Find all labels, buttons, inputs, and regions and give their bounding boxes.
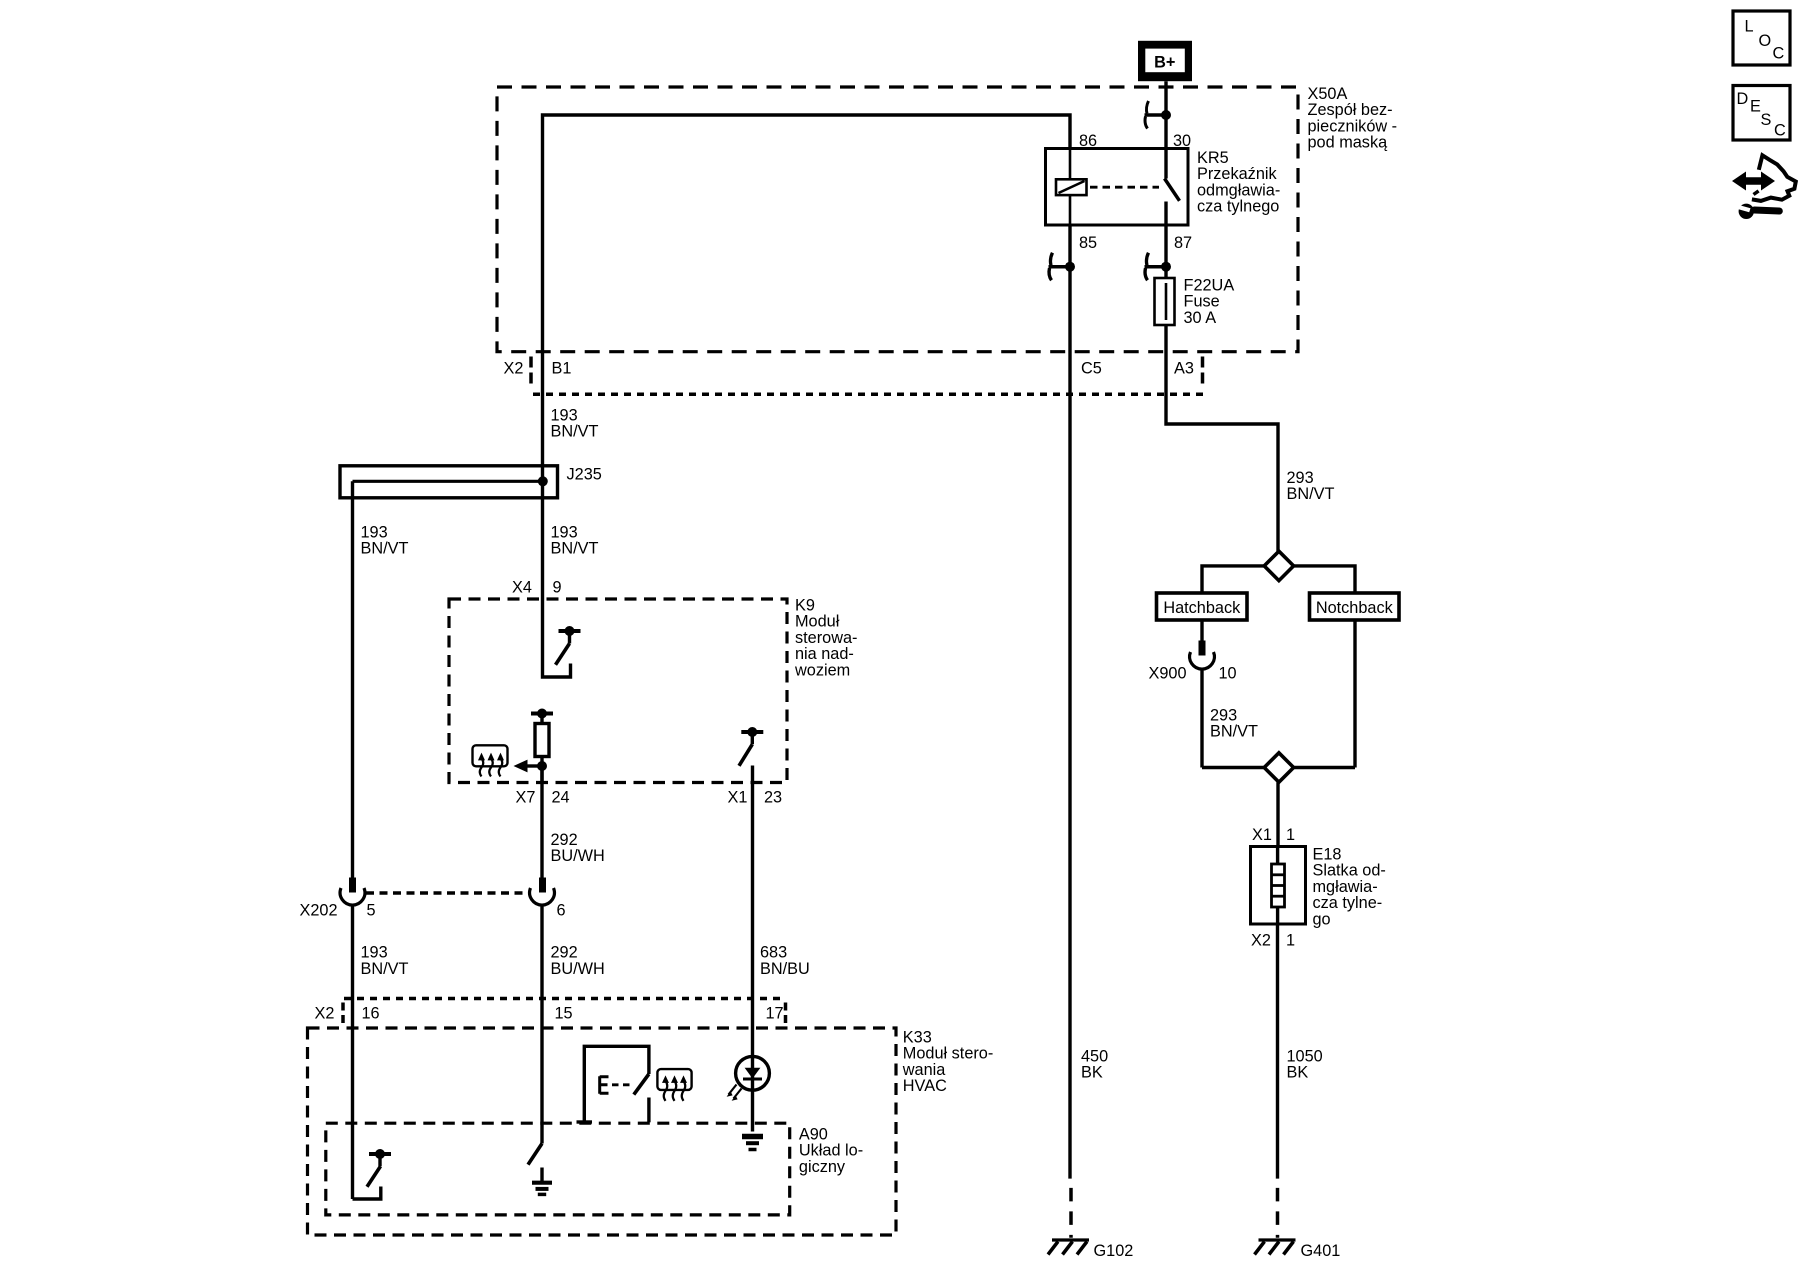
svg-text:wania: wania	[902, 1061, 946, 1079]
pin labels X1 23	[728, 788, 783, 806]
X202 terminal pin 6	[530, 878, 555, 906]
svg-text:mgławia-: mgławia-	[1313, 878, 1378, 896]
label A90 Uklad logiczny	[799, 1125, 863, 1176]
svg-text:B1: B1	[552, 359, 572, 377]
K9 driver switch (pin 9)	[556, 626, 581, 665]
label 292 BU/WH	[551, 944, 605, 978]
DESC reference box	[1733, 86, 1790, 141]
svg-text:pod maską: pod maską	[1308, 134, 1389, 152]
svg-text:23: 23	[764, 788, 782, 806]
svg-text:30: 30	[1173, 132, 1191, 150]
pin labels X7 24	[516, 788, 570, 806]
svg-text:1: 1	[1286, 932, 1295, 950]
label 683 BN/BU	[760, 944, 810, 978]
svg-text:X1: X1	[728, 788, 748, 806]
label 292 BU/WH	[551, 831, 605, 865]
K33 E switch assembly	[577, 1046, 649, 1122]
svg-text:X1: X1	[1252, 826, 1272, 844]
K9 defogger indicator arrow	[514, 760, 543, 773]
connector row X2/B1 C5 A3 dotted line	[533, 392, 1203, 396]
svg-text:450: 450	[1081, 1047, 1108, 1065]
labels X202 5 6	[300, 902, 566, 920]
splice pack J235	[340, 466, 558, 498]
svg-text:giczny: giczny	[799, 1158, 846, 1176]
K9 resistor with control tap	[531, 709, 553, 783]
fuse block X50A dashed box	[497, 87, 1298, 352]
relay dashed link coil to switch	[1090, 186, 1159, 189]
fuse F22UA 30A	[1155, 278, 1175, 325]
wire B1 horizontal to relay pin 86 then hook inside K9	[543, 115, 1071, 677]
splice diamond upper	[1264, 551, 1293, 580]
wire below Hatchback to X900	[1200, 620, 1203, 641]
A90 switch to ground (pin 15)	[528, 1144, 542, 1165]
svg-text:nia nad-: nia nad-	[795, 645, 854, 663]
svg-text:cza tylne-: cza tylne-	[1313, 894, 1383, 912]
connector clip on B+ feed	[1145, 101, 1172, 129]
svg-text:F22UA: F22UA	[1184, 276, 1235, 294]
svg-text:Układ lo-: Układ lo-	[799, 1142, 863, 1160]
svg-text:193: 193	[361, 523, 388, 541]
connector clip on wire 87	[1145, 253, 1172, 281]
svg-text:A90: A90	[799, 1125, 828, 1143]
svg-text:pieczników -: pieczników -	[1308, 117, 1398, 135]
pin labels X4 9	[512, 578, 562, 596]
svg-text:C: C	[1774, 122, 1786, 140]
svg-text:S: S	[1761, 111, 1772, 129]
K9 defogger icon	[473, 745, 508, 776]
svg-text:BN/VT: BN/VT	[551, 423, 599, 441]
svg-text:odmgławia-: odmgławia-	[1197, 181, 1280, 199]
svg-text:X7: X7	[516, 788, 536, 806]
svg-text:BU/WH: BU/WH	[551, 960, 605, 978]
svg-text:85: 85	[1079, 234, 1097, 252]
svg-text:woziem: woziem	[794, 662, 850, 680]
wire relay 87 down to fuse	[1164, 225, 1167, 278]
K9 low side switch (pin 23)	[739, 727, 763, 766]
svg-text:E18: E18	[1313, 845, 1342, 863]
svg-text:17: 17	[766, 1005, 784, 1023]
svg-text:10: 10	[1219, 664, 1237, 682]
repair icon arrow panel wrench	[1732, 155, 1796, 219]
svg-text:cza tylnego: cza tylnego	[1197, 198, 1279, 216]
module K33 dashed box	[308, 1028, 897, 1235]
wire E18 to G401	[1276, 924, 1279, 1179]
splice diamond lower	[1264, 753, 1293, 782]
svg-text:5: 5	[367, 902, 376, 920]
svg-text:KR5: KR5	[1197, 149, 1229, 167]
svg-text:L: L	[1745, 18, 1754, 36]
row separator right	[1201, 357, 1205, 385]
wire relay 85 down to C5 and G102	[1068, 225, 1071, 1179]
svg-text:K9: K9	[795, 596, 815, 614]
svg-text:X2: X2	[504, 359, 524, 377]
svg-text:O: O	[1759, 32, 1772, 50]
svg-text:Fuse: Fuse	[1184, 293, 1220, 311]
svg-text:G102: G102	[1094, 1242, 1134, 1260]
wire label 193 BN/VT (B1)	[551, 406, 599, 440]
in-line connector X202 dashed row	[366, 891, 531, 895]
row separator left	[529, 357, 533, 385]
dashed wire end to G102	[1069, 1188, 1073, 1238]
label K9 Modul sterowania nadwoziem	[794, 596, 857, 679]
svg-text:292: 292	[551, 831, 578, 849]
wire fuse down to A3 then over to right spine	[1166, 325, 1278, 551]
wire below Notchback	[1353, 620, 1356, 768]
row labels X2 B1 C5 A3	[504, 359, 1194, 377]
svg-text:16: 16	[362, 1005, 380, 1023]
svg-text:15: 15	[555, 1005, 573, 1023]
labels X900 10	[1149, 664, 1237, 682]
wire 683 BN/BU from K9 pin 23	[751, 766, 754, 1132]
wire 292 BU/WH from K9 pin 24	[540, 766, 543, 878]
label F22UA Fuse 30 A	[1184, 276, 1235, 327]
label 193 BN/VT right	[551, 523, 599, 557]
label 450 BK	[1081, 1047, 1108, 1081]
svg-text:1050: 1050	[1287, 1047, 1323, 1065]
svg-text:C5: C5	[1081, 359, 1102, 377]
X202 terminal pin 5	[340, 878, 365, 906]
svg-text:BU/WH: BU/WH	[551, 847, 605, 865]
label 193 BN/VT left	[361, 523, 409, 557]
rear defogger grid E18	[1251, 847, 1306, 925]
signal ground under A90 switch	[532, 1168, 552, 1195]
connector row K33 X2 16 15 17	[344, 997, 786, 1001]
A90 logic dashed box	[326, 1123, 790, 1215]
svg-text:J235: J235	[567, 465, 602, 483]
svg-text:Zespół bez-: Zespół bez-	[1308, 101, 1393, 119]
label K33 Modul sterowania HVAC	[902, 1028, 994, 1095]
svg-text:1: 1	[1286, 826, 1295, 844]
label 293 BN/VT lower	[1210, 706, 1258, 740]
svg-text:BN/VT: BN/VT	[1287, 485, 1335, 503]
svg-text:6: 6	[557, 902, 566, 920]
svg-text:X4: X4	[512, 578, 532, 596]
svg-text:BN/VT: BN/VT	[361, 960, 409, 978]
svg-text:86: 86	[1079, 132, 1097, 150]
svg-text:BN/BU: BN/BU	[760, 960, 810, 978]
svg-text:X2: X2	[1251, 932, 1271, 950]
wire B+ down to relay pin 30	[1164, 81, 1167, 148]
connector clip on wire 85	[1049, 253, 1076, 281]
module K9 dashed box	[449, 599, 787, 783]
svg-text:193: 193	[551, 523, 578, 541]
svg-text:Hatchback: Hatchback	[1163, 599, 1241, 617]
svg-text:B+: B+	[1154, 53, 1175, 71]
wire 193 BN/VT below X202	[351, 904, 354, 1199]
Hatchback box	[1157, 593, 1248, 620]
Notchback box	[1310, 593, 1400, 620]
svg-text:BN/VT: BN/VT	[361, 540, 409, 558]
svg-text:X202: X202	[300, 902, 338, 920]
labels X2 1	[1251, 932, 1295, 950]
K33 defogger icon	[657, 1069, 691, 1101]
svg-text:C: C	[1773, 44, 1785, 62]
relay pin labels 86 30 85 87	[1079, 132, 1192, 252]
svg-text:K33: K33	[903, 1028, 932, 1046]
ground G401	[1255, 1240, 1341, 1260]
label E18 Slatka odmglawiacza tylnego	[1313, 845, 1386, 928]
svg-text:Slatka od-: Slatka od-	[1313, 862, 1386, 880]
svg-text:BN/VT: BN/VT	[551, 540, 599, 558]
svg-text:193: 193	[361, 944, 388, 962]
A90 switch (pin 16)	[353, 1149, 392, 1199]
labels X1 1	[1252, 826, 1295, 844]
svg-text:X900: X900	[1149, 664, 1187, 682]
svg-text:BK: BK	[1287, 1064, 1309, 1082]
wire 193 BN/VT left branch from J235	[351, 481, 354, 878]
svg-text:BN/VT: BN/VT	[1210, 723, 1258, 741]
relay coil	[1056, 149, 1087, 226]
svg-text:Przekaźnik: Przekaźnik	[1197, 165, 1277, 183]
svg-text:293: 293	[1210, 706, 1237, 724]
svg-text:A3: A3	[1174, 359, 1194, 377]
svg-text:Moduł: Moduł	[795, 613, 840, 631]
LOC reference box	[1733, 11, 1790, 65]
svg-text:sterowa-: sterowa-	[795, 629, 857, 647]
connector X900 pin 10	[1190, 641, 1215, 768]
svg-text:87: 87	[1174, 234, 1192, 252]
wire splice to E18	[1276, 782, 1279, 846]
relay KR5 box	[1046, 149, 1189, 226]
svg-text:E: E	[1750, 98, 1761, 116]
svg-text:9: 9	[553, 578, 562, 596]
merge wires into lower splice	[1202, 766, 1355, 769]
K33 LED indicator	[727, 1056, 770, 1100]
svg-text:HVAC: HVAC	[903, 1077, 947, 1095]
svg-text:go: go	[1313, 911, 1331, 929]
label 1050 BK	[1287, 1047, 1323, 1081]
power symbol B+	[1138, 41, 1192, 81]
svg-text:193: 193	[551, 406, 578, 424]
svg-text:BK: BK	[1081, 1064, 1103, 1082]
dashed wire end to G401	[1276, 1188, 1280, 1238]
label X50A Zespol bezpiecznikow pod maska	[1308, 85, 1398, 152]
label 193 BN/VT	[361, 944, 409, 978]
relay switch arm pin 30 to 87	[1165, 149, 1180, 226]
svg-text:X50A: X50A	[1308, 85, 1348, 103]
svg-text:293: 293	[1287, 469, 1314, 487]
svg-text:24: 24	[552, 788, 570, 806]
svg-text:D: D	[1737, 90, 1749, 108]
svg-text:683: 683	[760, 944, 787, 962]
signal ground under LED	[742, 1137, 763, 1150]
svg-text:X2: X2	[315, 1005, 335, 1023]
svg-text:Moduł stero-: Moduł stero-	[903, 1045, 994, 1063]
svg-text:292: 292	[551, 944, 578, 962]
svg-text:Notchback: Notchback	[1316, 599, 1394, 617]
wire 292 BU/WH below X202	[540, 904, 543, 1143]
svg-text:G401: G401	[1301, 1242, 1341, 1260]
svg-text:30 A: 30 A	[1184, 309, 1217, 327]
ground G102	[1048, 1240, 1133, 1260]
branch wires to Hatchback and Notchback	[1202, 566, 1355, 593]
label 293 BN/VT upper right	[1287, 469, 1335, 503]
label KR5 Przekaznik odmglawiacza tylnego	[1197, 149, 1280, 216]
